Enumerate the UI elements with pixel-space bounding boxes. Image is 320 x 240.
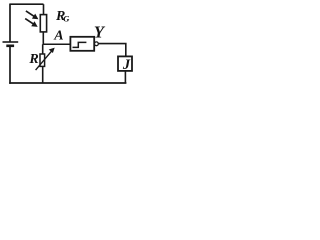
light arrow 1 (26, 11, 39, 19)
variable resistor R arrow (36, 48, 55, 71)
wire R bottom lead (42, 66, 44, 83)
svg-text:J: J (122, 57, 131, 73)
gate U1 box (70, 37, 94, 51)
svg-text:R: R (28, 52, 38, 67)
wire top from battery to RG (10, 3, 44, 5)
svg-text:A: A (53, 29, 63, 44)
wire bottom rail (9, 82, 126, 84)
battery B1 long plate (3, 41, 19, 43)
wire RG top lead (43, 4, 45, 15)
gate U1 step symbol (73, 42, 87, 47)
wire node A down to R (42, 44, 44, 54)
wire gate output to corner (98, 44, 126, 57)
variable resistor R body (40, 54, 45, 66)
wire node A to gate input (43, 43, 71, 45)
wire RG bottom lead to node A (42, 32, 44, 45)
gate U1 output bubble (95, 42, 99, 46)
svg-text:G: G (63, 14, 70, 24)
wire battery top lead (9, 4, 11, 42)
battery B1 short plate (6, 44, 14, 47)
light arrow 2 (25, 19, 38, 27)
photoresistor RG body (40, 15, 46, 32)
wire J bottom lead (124, 71, 126, 83)
relay J box (118, 56, 132, 71)
wire battery bottom lead (9, 46, 11, 84)
